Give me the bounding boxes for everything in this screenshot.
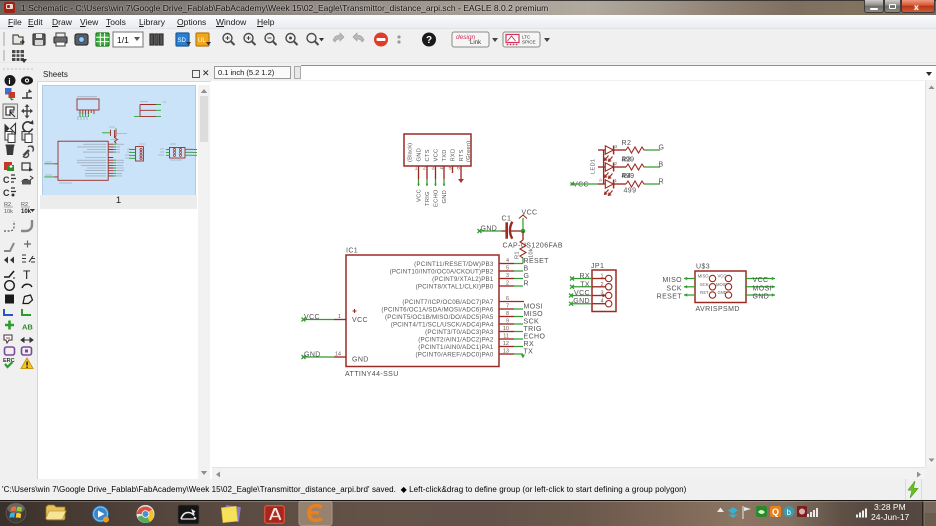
IC1 right pin labels [381,261,493,359]
svg-text:3: 3 [600,291,603,297]
delete [6,146,14,155]
svg-text:MISO: MISO [524,311,544,318]
svg-text:GND: GND [753,294,770,301]
scrollbars [925,81,936,467]
svg-text:VCC: VCC [574,290,590,297]
svg-text:3:28 PM: 3:28 PM [874,502,906,512]
svg-text:SD: SD [178,38,187,44]
net label VCC (LED block) [571,182,589,189]
polygon tool [23,295,33,304]
svg-text:(PCINT5/OC1B/MISO/DO/ADC5)PA5: (PCINT5/OC1B/MISO/DO/ADC5)PA5 [385,314,494,321]
resistor R1 10k [515,231,535,259]
svg-text:GND: GND [573,298,590,305]
svg-text:A: A [599,178,602,183]
bus ripper [22,255,35,262]
svg-text:5: 5 [449,166,452,172]
autocad [264,505,285,524]
svg-text:(PCINT10/INT0/OC0A/CKOUT)PB2: (PCINT10/INT0/OC0A/CKOUT)PB2 [390,269,494,276]
svg-text:(PCINT9/XTAL2)PB1: (PCINT9/XTAL2)PB1 [432,276,494,283]
wire LED to R4 [614,183,626,185]
status bar [0,479,936,500]
rect tool [5,295,14,304]
help [422,33,436,47]
svg-text:?: ? [426,35,432,46]
svg-text:G: G [659,145,665,152]
display layers [5,88,12,95]
svg-text:499: 499 [622,173,635,180]
wire TRIG (FTDI) [426,179,429,186]
svg-text:T: T [23,268,31,282]
svg-text:AVRISPSMD: AVRISPSMD [696,306,740,313]
IC1 right pin numbers [503,258,509,355]
stop [374,33,388,47]
toolbar row 1 [0,29,936,49]
svg-text:(PCINT8/XTAL1/CLKI)PB0: (PCINT8/XTAL1/CLKI)PB0 [416,284,494,291]
show/eye [21,76,33,84]
connector FTDI header [404,134,472,166]
wire ECHO [514,338,523,340]
svg-text:(PCINT4/T1/SCL/USCK/ADC4)PA4: (PCINT4/T1/SCL/USCK/ADC4)PA4 [391,322,494,329]
connector JP1 [591,263,616,312]
svg-text:1: 1 [600,274,603,280]
supply VCC (above C1) [519,210,537,219]
svg-text:1: 1 [615,178,618,183]
replace/lock [22,180,29,182]
svg-text:RTS: RTS [459,149,465,161]
svg-text:RST: RST [700,290,709,295]
zoom buttons [223,34,324,46]
svg-text:2: 2 [600,282,603,288]
wire GND (JP1) [569,302,592,306]
svg-text:10k: 10k [21,209,32,215]
IC1 right pin stubs [499,264,524,355]
UL orange [196,33,209,46]
svg-text:AB: AB [22,323,33,332]
wire VCC (JP1) [569,294,592,298]
wire TRIG [514,331,523,333]
window title bar [0,0,936,15]
arc tool [22,284,32,288]
wire R [514,285,523,287]
svg-text:ECHO: ECHO [524,334,546,341]
svg-text:RX: RX [524,341,535,348]
svg-text:TRIG: TRIG [524,326,542,333]
svg-text:GND: GND [417,148,423,161]
rhino [178,505,199,524]
connector U$3 AVRISPSMD [695,264,746,314]
svg-text:TXD: TXD [442,149,448,161]
svg-text:TX: TX [580,281,590,288]
wire R3 to B [646,166,660,168]
svg-text:(PCINT11/RESET/DW)PB3: (PCINT11/RESET/DW)PB3 [414,261,494,268]
svg-text:JP1: JP1 [591,263,604,270]
svg-text:(Black): (Black) [408,143,414,162]
wire MOSI [514,308,523,310]
bus tool [4,309,13,315]
image/export [75,34,88,45]
wire MISO (U$3 left) [684,277,695,280]
wire SCK [514,323,523,325]
svg-text:TX: TX [524,349,534,356]
svg-text:GND: GND [442,190,448,203]
dimension [21,338,33,342]
svg-text:MISO: MISO [663,277,683,284]
copy [5,132,12,141]
svg-text:24-Jun-17: 24-Jun-17 [871,512,910,522]
svg-text:(PCINT1/AIN0/ADC1)PA1: (PCINT1/AIN0/ADC1)PA1 [418,344,494,351]
wire LED to R2 [614,149,626,151]
svg-text:ECHO: ECHO [434,189,440,207]
svg-text:RXD: RXD [451,149,457,162]
attribute [4,335,12,343]
open [13,35,23,44]
toolbar row 2 [0,49,936,63]
wire RESET [514,263,523,265]
mark [22,92,32,98]
U$3 pin name labels [698,274,709,296]
menu bar [0,15,936,29]
svg-text:10k: 10k [4,209,13,215]
eagle (active) [299,501,332,526]
design link button [452,32,489,47]
optimize [4,257,14,264]
svg-text:SCK: SCK [524,319,540,326]
svg-text:3: 3 [615,144,618,149]
dots [397,35,400,38]
IC1 left pin 1 VCC wire [302,314,347,322]
svg-text:C: C [3,188,10,198]
junction tool [5,321,14,330]
svg-text:VCC: VCC [718,274,727,279]
svg-text:Q: Q [772,507,779,517]
wire GND (FTDI) [443,179,446,186]
JP1 pin numbers [600,274,603,305]
svg-text:VCC: VCC [417,189,423,202]
wire RESET (U$3 left) [684,293,695,296]
svg-text:R: R [659,179,664,186]
frame2 [22,347,32,355]
svg-text:(PCINT7/ICP/OC0B/ADC7)PA7: (PCINT7/ICP/OC0B/ADC7)PA7 [402,299,494,306]
resistor R4 (name overlapped by R3 value 499) [622,173,647,187]
net label GND (C1 left) [478,226,498,234]
wire VCC down [522,218,524,231]
left tool palette [0,63,37,479]
svg-text:TRIG: TRIG [425,191,431,206]
coordinate row [211,63,936,81]
start orb [5,502,27,524]
wire R1 to RESET [522,258,524,264]
svg-text:4: 4 [600,299,603,305]
svg-text:B: B [524,266,529,273]
svg-text:499: 499 [622,157,635,164]
IC1 left pin 14 GND wire [302,352,347,360]
svg-text:U$3: U$3 [696,264,710,271]
errors warning [21,358,33,369]
op IC1 ATTINY44-SSU [345,248,499,379]
svg-text:R: R [524,281,529,288]
svg-text:GND: GND [304,352,321,359]
wire VCC to LED1 [572,183,598,185]
svg-text:VCC: VCC [434,149,440,162]
svg-text:MISO: MISO [698,274,709,279]
LTC spice button [503,32,540,47]
svg-text:SCK: SCK [666,285,682,292]
svg-text:1/1: 1/1 [117,35,129,45]
svg-text:UL: UL [198,38,206,44]
svg-text:(PCINT2/AIN1/ADC2)PA2: (PCINT2/AIN1/ADC2)PA2 [418,337,494,344]
taskbar [0,500,936,526]
svg-text:4: 4 [440,166,443,172]
layers [150,34,153,45]
svg-text:R1: R1 [515,251,521,259]
wire VCC (U$3 right) [746,277,775,280]
frame [5,347,15,355]
info [5,75,16,86]
capacitor C1 [502,216,522,239]
svg-text:B: B [659,162,664,169]
corner arc [21,220,32,231]
chrome [137,505,155,523]
svg-text:VCC: VCC [573,182,589,189]
wire SCK (U$3 left) [684,285,695,288]
resistor R2 [622,140,647,153]
svg-text:(PCINT6/OC1A/SDA/MOSI/ADC6)PA6: (PCINT6/OC1A/SDA/MOSI/ADC6)PA6 [381,307,493,314]
svg-text:G: G [524,273,530,280]
FTDI pin stubs [419,166,462,179]
svg-text:VCC: VCC [352,317,368,324]
wire GND (U$3 right) [746,293,775,296]
svg-text:VCC: VCC [304,314,320,321]
svg-text:RX: RX [579,273,590,280]
junction node VCC/C1/R1 [521,229,526,234]
svg-text:R2: R2 [622,140,632,147]
svg-text:MOSI: MOSI [716,282,727,287]
svg-text:LED1: LED1 [591,159,597,174]
wire GND to C1 [479,230,502,232]
wire G [514,278,523,280]
wire RX (JP1) [570,277,592,281]
svg-text:b: b [787,508,792,517]
wire VCC (FTDI) [417,179,420,186]
save [33,34,45,45]
svg-text:(PCINT0/AREF/ADC0)PA0: (PCINT0/AREF/ADC0)PA0 [415,352,493,359]
svg-text:GND: GND [352,357,369,364]
svg-text:(Green): (Green) [466,141,472,162]
svg-text:Link: Link [470,40,482,46]
svg-text:ATTINY44-SSU: ATTINY44-SSU [345,371,399,378]
svg-text:IC1: IC1 [346,248,358,255]
svg-text:C1: C1 [502,216,512,223]
move [22,106,32,116]
rotate [23,122,33,132]
print [54,37,67,43]
add part [22,163,30,170]
svg-text:C: C [3,175,10,185]
wire RX [514,346,523,348]
wire B [514,270,523,272]
svg-text:VCC: VCC [753,277,769,284]
wire ECHO (FTDI) [434,179,437,186]
svg-text:499: 499 [624,188,637,195]
paint [4,162,12,170]
svg-text:RESET: RESET [524,258,550,265]
invoke [24,241,31,248]
wire TX (JP1) [570,285,592,289]
svg-text:i: i [8,77,10,86]
sch/brd grid green [96,33,109,46]
split [4,243,14,251]
LED LED1 (RGB, 3 diodes) [591,144,618,195]
wire R2 to G [646,149,660,151]
svg-text:SCK: SCK [700,282,709,287]
canvas + schematic [212,81,925,467]
SCH blue [176,33,189,46]
circle tool [5,281,15,291]
wmp [92,506,109,523]
svg-text:2: 2 [615,161,618,166]
svg-text:GND: GND [718,290,727,295]
RTS stub arrow [458,179,464,183]
wire MISO [514,316,523,318]
svg-text:MOSI: MOSI [753,285,773,292]
paste [22,132,29,141]
svg-text:SPICE: SPICE [522,40,536,45]
FTDI pin numbers 1-6 [415,166,461,172]
svg-text:RESET: RESET [657,294,683,301]
svg-text:CTS: CTS [425,149,431,161]
svg-text:6: 6 [457,166,460,172]
wire R4 to R [646,183,660,185]
sheets panel [37,63,212,479]
wire LED to R3 [614,166,626,168]
undo / redo [333,33,344,42]
svg-text:MOSI: MOSI [524,304,544,311]
resistor R3 (name overlapped by R2 value 499) [622,157,647,171]
tray [717,508,724,513]
sticky notes [221,505,241,523]
net tool [22,309,31,315]
explorer [46,505,66,520]
1/1 combo [113,32,143,47]
group/select tool (active) [3,104,18,119]
svg-text:2: 2 [423,166,426,172]
svg-text:10k: 10k [529,248,535,258]
miter [4,221,14,231]
svg-text:3: 3 [432,166,435,172]
wire tool [4,271,14,277]
svg-text:(PCINT3/T0/ADC3)PA3: (PCINT3/T0/ADC3)PA3 [425,329,494,336]
wire TX [514,354,525,359]
change wrench [24,146,34,156]
mirror [5,124,10,134]
wire MOSI (U$3 right) [746,285,775,288]
svg-text:1: 1 [415,166,418,172]
